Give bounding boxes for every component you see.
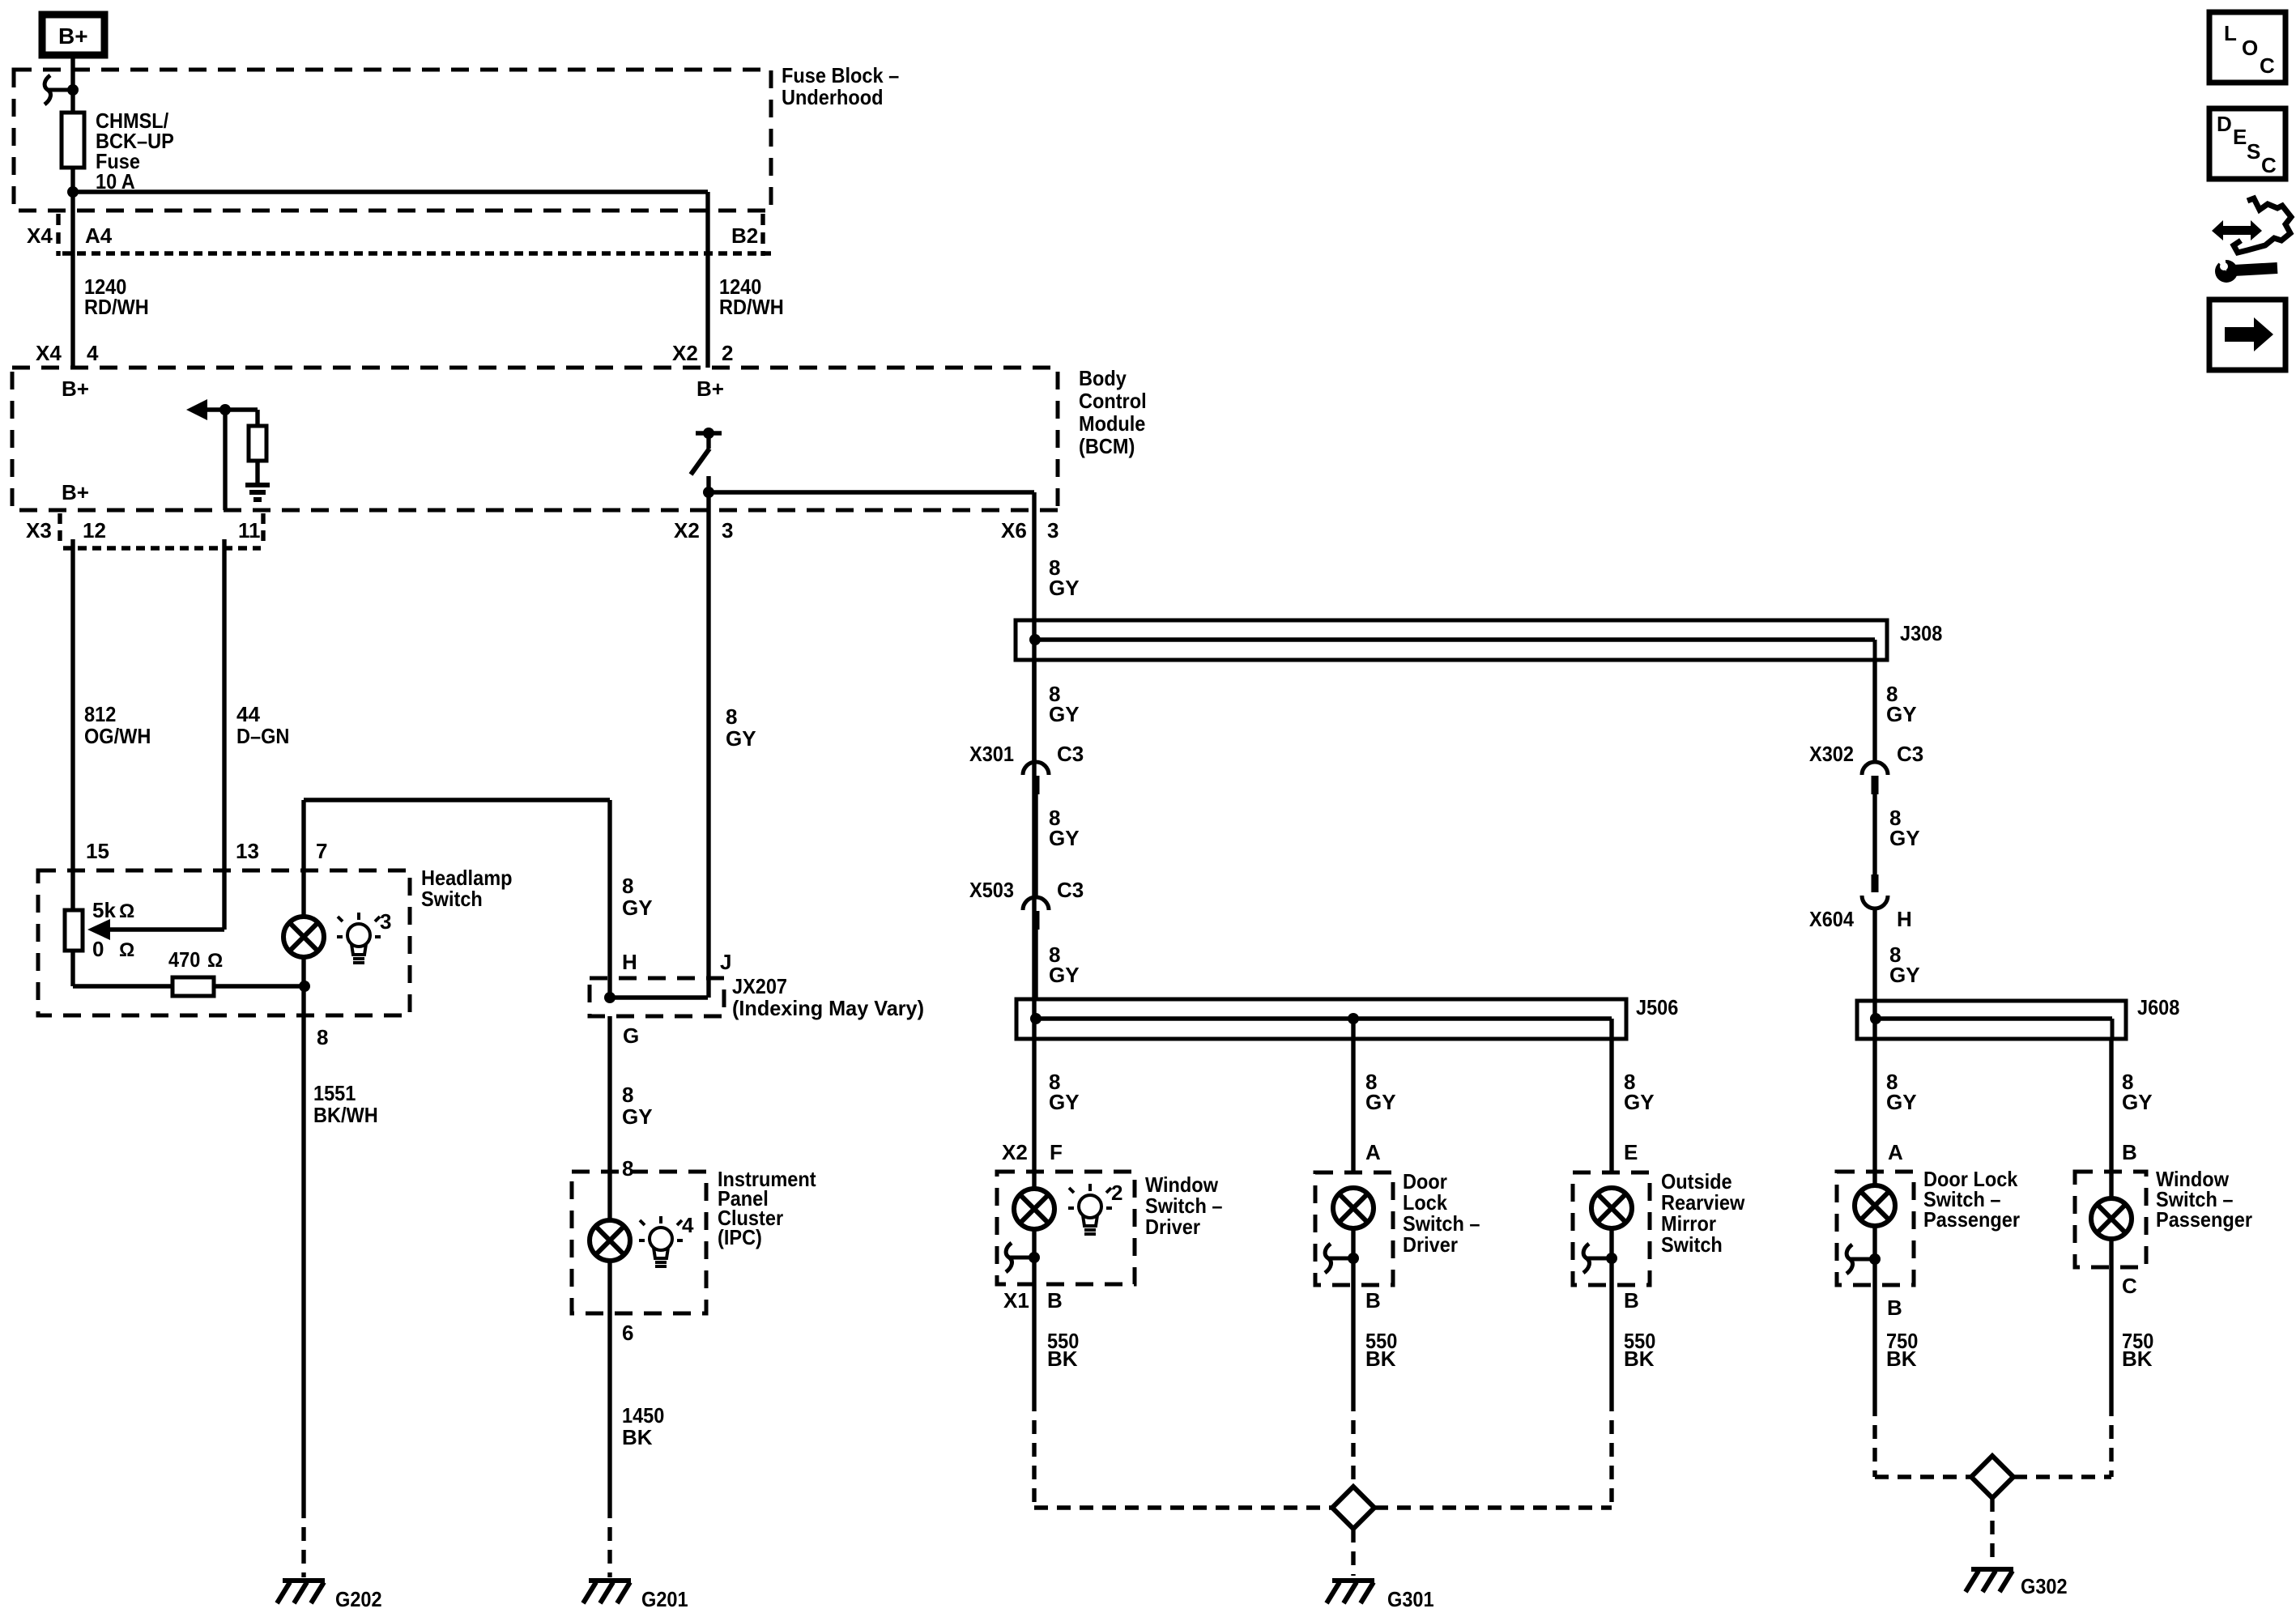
svg-text:GY: GY [1049,576,1080,600]
wire X302 to X604 [1872,794,1876,874]
Door Lock Switch - Driver dashed box [1315,1172,1393,1285]
splice pack J506 [1016,999,1626,1039]
svg-text:X4: X4 [36,341,62,365]
svg-text:L: L [2224,21,2237,45]
svg-text:B+: B+ [62,377,89,401]
hand tool icon [2212,220,2262,240]
svg-text:C: C [2260,53,2275,78]
LOC icon box [2209,12,2285,83]
splice diamond G302 path [1971,1456,2013,1498]
wire BCM internal to X6-3 [709,490,1034,494]
svg-text:GY: GY [622,896,653,920]
wire 550 BK down [1609,1285,1613,1398]
svg-text:GY: GY [726,726,756,751]
wire across to JX207 H [304,798,610,802]
svg-text:8: 8 [726,704,737,729]
connector X503 [1023,897,1049,910]
svg-text:GY: GY [1886,702,1917,726]
svg-text:X3: X3 [26,518,52,543]
potentiometer 5k [65,910,83,951]
wire X2-3 down to JX207 J [706,492,710,998]
svg-text:B2: B2 [731,223,758,248]
dashed wire to G202 [301,1504,305,1577]
svg-text:GY: GY [1049,963,1080,987]
svg-text:BK: BK [1624,1347,1655,1371]
svg-text:BK: BK [622,1425,653,1449]
wire lamp to pin 8 [301,986,305,1015]
wire B2 down to BCM X2-2 [705,192,709,368]
switch contact door lock driver [1325,1244,1353,1273]
fuse block underhood dashed box [14,70,771,211]
DESC icon box [2209,109,2285,179]
junction below switch [703,487,714,498]
svg-text:C3: C3 [1057,878,1084,902]
ground G301 [1327,1581,1374,1603]
svg-text:B: B [1047,1288,1063,1313]
svg-text:F: F [1050,1140,1063,1164]
svg-text:4: 4 [87,341,99,365]
fuse CHMSL/BCK-UP 10A [70,113,75,192]
dashed wire to splice [2109,1402,2113,1477]
svg-text:15: 15 [86,839,109,863]
svg-text:A: A [1365,1140,1381,1164]
svg-text:4: 4 [682,1213,694,1237]
svg-text:S: S [2247,139,2260,164]
wire 1551 down [301,1015,305,1504]
svg-text:1450: 1450 [622,1403,664,1428]
wire to X3 pin 11 [223,410,227,510]
svg-text:Ω: Ω [119,939,134,961]
switch blade [691,449,709,474]
Window Switch - Driver dashed box [997,1172,1135,1284]
svg-text:X1: X1 [1003,1288,1029,1313]
svg-text:B+: B+ [62,480,89,504]
svg-text:(Indexing May Vary): (Indexing May Vary) [732,996,924,1020]
ground G201 [583,1581,631,1603]
resistor inside BCM [255,410,259,426]
connector X302 [1862,762,1888,775]
svg-text:X302: X302 [1809,742,1854,766]
svg-text:BK/WH: BK/WH [313,1103,378,1127]
wire 750 BK down [1872,1285,1876,1402]
svg-text:6: 6 [622,1321,633,1345]
junction lamp bottom [299,981,310,992]
svg-text:GY: GY [1049,1090,1080,1114]
svg-text:GY: GY [1624,1090,1655,1114]
svg-text:GY: GY [2122,1090,2153,1114]
svg-text:B+: B+ [696,377,724,401]
svg-text:GY: GY [622,1104,653,1129]
ground G302 [1966,1569,2013,1592]
svg-text:470: 470 [168,947,200,972]
svg-text:A4: A4 [85,223,113,248]
svg-text:Switch: Switch [1661,1232,1723,1257]
svg-text:BK: BK [1365,1347,1396,1371]
junction in J308 [1029,634,1041,645]
svg-text:Passenger: Passenger [1923,1207,2020,1232]
dashed wire to G201 [607,1504,611,1577]
B+ power feed box [42,15,104,55]
dashed wire to splice [1032,1398,1036,1508]
wire 812 OG/WH pin12 to headlamp pot [70,539,75,910]
svg-text:X6: X6 [1001,518,1027,543]
svg-text:X503: X503 [969,878,1014,902]
svg-text:Passenger: Passenger [2156,1207,2252,1232]
svg-text:GY: GY [1049,702,1080,726]
svg-text:GY: GY [1049,826,1080,850]
svg-text:RD/WH: RD/WH [84,295,149,319]
svg-text:7: 7 [316,839,327,863]
svg-text:1551: 1551 [313,1081,356,1105]
svg-text:C3: C3 [1897,742,1923,766]
dotted line under pins 12 11 [63,546,261,550]
dashed wire to diamond splice [1351,1398,1355,1487]
svg-text:D–GN: D–GN [236,724,289,748]
svg-text:J308: J308 [1900,621,1942,645]
svg-text:2: 2 [722,341,733,365]
dashed wire diamond to G301 [1351,1529,1355,1576]
wiper arrow [87,919,110,940]
jumper H-J in JX207 [610,995,708,999]
svg-text:X2: X2 [674,518,700,543]
wire 1450 BK down [607,1313,611,1504]
wire G down to IPC [607,1016,611,1172]
svg-text:8: 8 [317,1025,328,1049]
wire 550 BK down [1351,1285,1355,1398]
lamp window switch driver [1014,1189,1054,1229]
svg-text:OG/WH: OG/WH [84,724,151,748]
bulb icon 2 [1068,1184,1112,1234]
svg-text:Driver: Driver [1145,1215,1200,1239]
switch contact window driver [1006,1243,1034,1272]
svg-text:G202: G202 [335,1587,382,1611]
svg-text:B: B [2122,1140,2137,1164]
switch inside BCM [696,431,722,435]
svg-text:H: H [622,950,637,974]
wire pot bottom through 470 to lamp [73,984,305,988]
svg-text:13: 13 [236,839,259,863]
switch contact ORM [1583,1244,1612,1273]
svg-text:J: J [720,950,731,974]
svg-text:5k: 5k [92,898,116,922]
wire J608 to window switch passenger [2109,1039,2113,1198]
wire fuse to B2 [73,189,708,194]
svg-text:X4: X4 [27,223,53,248]
junction J608 [1870,1013,1881,1024]
svg-text:B: B [1365,1288,1381,1313]
bulb icon 4 [639,1216,683,1266]
wire J506 to door lock switch driver [1351,1019,1355,1172]
joint connector JX207 dashed box [590,978,724,1016]
svg-text:Ω: Ω [119,900,134,922]
junction JX207 [604,992,616,1003]
svg-text:J608: J608 [2137,995,2179,1019]
junction node inside BCM [219,404,231,415]
svg-text:X2: X2 [672,341,698,365]
dashed wire diamond to G302 [1990,1498,1994,1564]
svg-text:BK: BK [1047,1347,1078,1371]
bulb icon 3 [337,913,381,963]
svg-text:(IPC): (IPC) [718,1225,762,1249]
wire X503 to J506 [1033,930,1037,999]
wire J506 to ORM switch [1609,1019,1613,1172]
svg-text:GY: GY [1889,826,1920,850]
junction fuse output [67,186,79,198]
svg-text:812: 812 [84,702,116,726]
wire J608 to door lock passenger [1872,1001,1876,1185]
dashed wire to splice [1609,1398,1613,1508]
svg-text:Module: Module [1079,411,1145,436]
junction J506 middle [1348,1013,1359,1024]
svg-text:Ω: Ω [207,950,223,972]
dashed splice line to G302 [1875,1474,1971,1479]
svg-text:C: C [2261,153,2277,177]
svg-text:BK: BK [1886,1347,1917,1371]
svg-text:2: 2 [1111,1181,1122,1205]
splice pack J308 [1016,620,1887,660]
svg-text:E: E [2233,125,2247,149]
dashed splice line to G301 [1034,1505,1332,1509]
wire J308 to X302 [1872,660,1876,760]
svg-text:Switch: Switch [421,887,483,911]
svg-text:E: E [1624,1140,1638,1164]
Door Lock Switch - Passenger dashed box [1837,1172,1914,1285]
lamp door lock switch driver [1333,1188,1374,1228]
wire pin7 to lamp [301,870,305,917]
switch contact door lock passenger [1847,1245,1875,1274]
svg-text:G: G [623,1023,639,1048]
svg-text:Underhood: Underhood [782,85,884,109]
J608 splice pack [1857,1001,2126,1039]
wire A4 down to BCM X4-4 [70,192,75,368]
dashed wire to splice [1872,1402,1876,1477]
svg-text:12: 12 [83,518,106,543]
svg-text:X604: X604 [1809,907,1854,931]
junction J506 left [1030,1013,1042,1024]
svg-text:GY: GY [1886,1090,1917,1114]
ground G202 [277,1581,325,1603]
wire down to JX207 [607,800,611,998]
svg-text:J506: J506 [1636,995,1678,1019]
svg-text:GY: GY [1365,1090,1396,1114]
arrow icon box [2209,300,2285,370]
svg-text:3: 3 [380,909,391,934]
svg-text:Fuse Block –: Fuse Block – [782,63,899,87]
connector X604 [1872,874,1879,892]
wire X6-3 down through J308 J506 [1032,492,1036,1172]
connector row dotted line [62,251,771,255]
Outside Rearview Mirror Switch dashed box [1573,1172,1650,1285]
svg-text:3: 3 [722,518,733,543]
svg-text:Control: Control [1079,389,1147,413]
svg-text:G302: G302 [2021,1574,2068,1598]
svg-text:11: 11 [238,518,261,543]
svg-text:Driver: Driver [1403,1232,1458,1257]
svg-text:X2: X2 [1002,1140,1028,1164]
svg-text:B: B [1624,1288,1639,1313]
earth ground inside BCM [245,485,270,500]
hook contact in fuse block [45,75,73,104]
svg-text:BK: BK [2122,1347,2153,1371]
svg-text:G301: G301 [1387,1587,1434,1611]
Window Switch - Passenger dashed box [2075,1172,2146,1267]
svg-text:O: O [2242,36,2258,60]
svg-text:G201: G201 [641,1587,688,1611]
wire 44 D-GN pin11 to headlamp arrow [222,539,226,930]
svg-text:C: C [2122,1274,2137,1298]
lamp ORM switch [1591,1188,1632,1228]
wire B+ to fuse [70,58,75,113]
svg-text:JX207: JX207 [732,974,787,998]
lamp headlamp switch illumination [283,917,324,957]
splice diamond G301 path [1332,1487,1374,1529]
svg-text:8: 8 [622,1156,633,1181]
lamp window switch passenger [2091,1198,2132,1239]
svg-text:8: 8 [622,1083,633,1107]
svg-text:H: H [1897,907,1912,931]
svg-text:C3: C3 [1057,742,1084,766]
svg-text:8: 8 [622,874,633,898]
svg-text:X301: X301 [969,742,1014,766]
svg-text:44: 44 [236,702,260,726]
svg-text:RD/WH: RD/WH [719,295,784,319]
svg-text:0: 0 [92,937,104,961]
connector X301 [1023,762,1049,775]
Body Control Module (BCM) dashed box [12,368,1058,510]
arrow to other circuits inside BCM [186,399,207,420]
wire X301 to X503 [1033,794,1037,896]
svg-text:GY: GY [1889,963,1920,987]
wire J308 to X301 [1032,660,1036,760]
svg-text:3: 3 [1047,518,1059,543]
lamp door lock switch passenger [1855,1185,1895,1226]
wire 550 BK down [1032,1284,1036,1398]
wire X604 to J608 [1872,908,1876,1001]
wire pin13 to wiper [107,927,224,931]
svg-text:(BCM): (BCM) [1079,434,1135,458]
svg-text:A: A [1888,1140,1903,1164]
wire 750 BK down [2109,1267,2113,1402]
svg-text:B+: B+ [58,23,88,49]
wire pin7 up [301,800,305,870]
Instrument Panel Cluster dashed box [572,1172,706,1313]
lamp IPC backlight [590,1220,630,1261]
headlamp switch dashed box [38,870,410,1015]
svg-text:Body: Body [1079,366,1127,390]
svg-text:B: B [1887,1296,1902,1320]
svg-text:D: D [2217,112,2232,136]
